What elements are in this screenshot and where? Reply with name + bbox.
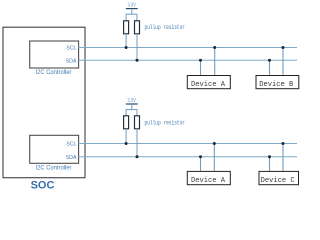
resistor R1 (SCL pullup, top) [124, 21, 129, 34]
svg-text:3.3V: 3.3V [127, 2, 136, 8]
wire R4 to SDA2 [136, 129, 138, 157]
wire SDA2 bus [78, 156, 297, 158]
Device B box [256, 76, 299, 89]
junction DevB-SDA1 [268, 59, 271, 62]
wire R2 to SDA1 [136, 34, 138, 61]
Device C box [259, 171, 299, 184]
svg-text:I2C Controller: I2C Controller [36, 165, 72, 172]
Device A (bottom) box [187, 171, 230, 184]
wire R3 to SCL2 [125, 129, 127, 144]
svg-text:Device B: Device B [259, 81, 293, 89]
wire power stem and bracket (top) [126, 9, 137, 21]
wire Device B to SDA1 [269, 60, 271, 75]
wire Device C to SDA2 [269, 157, 271, 172]
wire Device A2 to SDA2 [200, 157, 202, 172]
wire Device B to SCL1 [282, 48, 284, 76]
junction R3-SCL2 [125, 142, 128, 145]
junction R1-SCL1 [125, 46, 128, 49]
wire Device A1 to SDA1 [200, 60, 202, 75]
resistor R3 (SCL pullup, bottom) [124, 116, 129, 129]
svg-text:3.3V: 3.3V [127, 98, 136, 104]
wire Device A2 to SCL2 [213, 144, 215, 172]
junction DevA1-SCL1 [213, 46, 216, 49]
I2C Controller 1 box (U1) [30, 41, 79, 68]
wire SDA1 bus [78, 59, 297, 61]
Device A (top) box [187, 76, 230, 89]
resistor R2 (SDA pullup, top) [135, 21, 140, 34]
svg-text:SOC: SOC [31, 180, 55, 190]
junction R4-SDA2 [136, 155, 139, 158]
svg-text:SDA: SDA [66, 155, 77, 161]
svg-text:SDA: SDA [66, 59, 77, 65]
wire Device A1 to SCL1 [214, 48, 216, 76]
junction R2-SDA1 [136, 59, 139, 62]
svg-text:Device A: Device A [191, 177, 225, 185]
junction DevA2-SCL2 [213, 142, 216, 145]
junction DevB-SCL1 [282, 46, 285, 49]
resistor R4 (SDA pullup, bottom) [135, 116, 140, 129]
power rail bar (top) [126, 8, 138, 10]
junction DevA2-SDA2 [199, 155, 202, 158]
I2C Controller 2 box (U2) [30, 135, 79, 163]
SOC box [3, 27, 85, 178]
svg-text:I2C Controller: I2C Controller [36, 69, 72, 76]
svg-text:SCL: SCL [66, 46, 76, 52]
junction DevC-SDA2 [268, 155, 271, 158]
svg-text:pullup resistor: pullup resistor [145, 119, 186, 126]
wire R1 to SCL1 [125, 34, 127, 48]
junction DevA1-SDA1 [199, 59, 202, 62]
wire SCL2 bus [78, 143, 297, 145]
power rail bar (bottom) [126, 103, 138, 105]
svg-text:SCL: SCL [66, 142, 76, 148]
wire SCL1 bus [78, 47, 297, 49]
wire power stem and bracket (bottom) [126, 104, 137, 116]
svg-text:pullup resistor: pullup resistor [145, 24, 186, 31]
svg-text:Device C: Device C [261, 177, 295, 185]
svg-text:Device A: Device A [191, 81, 225, 89]
junction DevC-SCL2 [282, 142, 285, 145]
wire Device C to SCL2 [282, 144, 284, 172]
